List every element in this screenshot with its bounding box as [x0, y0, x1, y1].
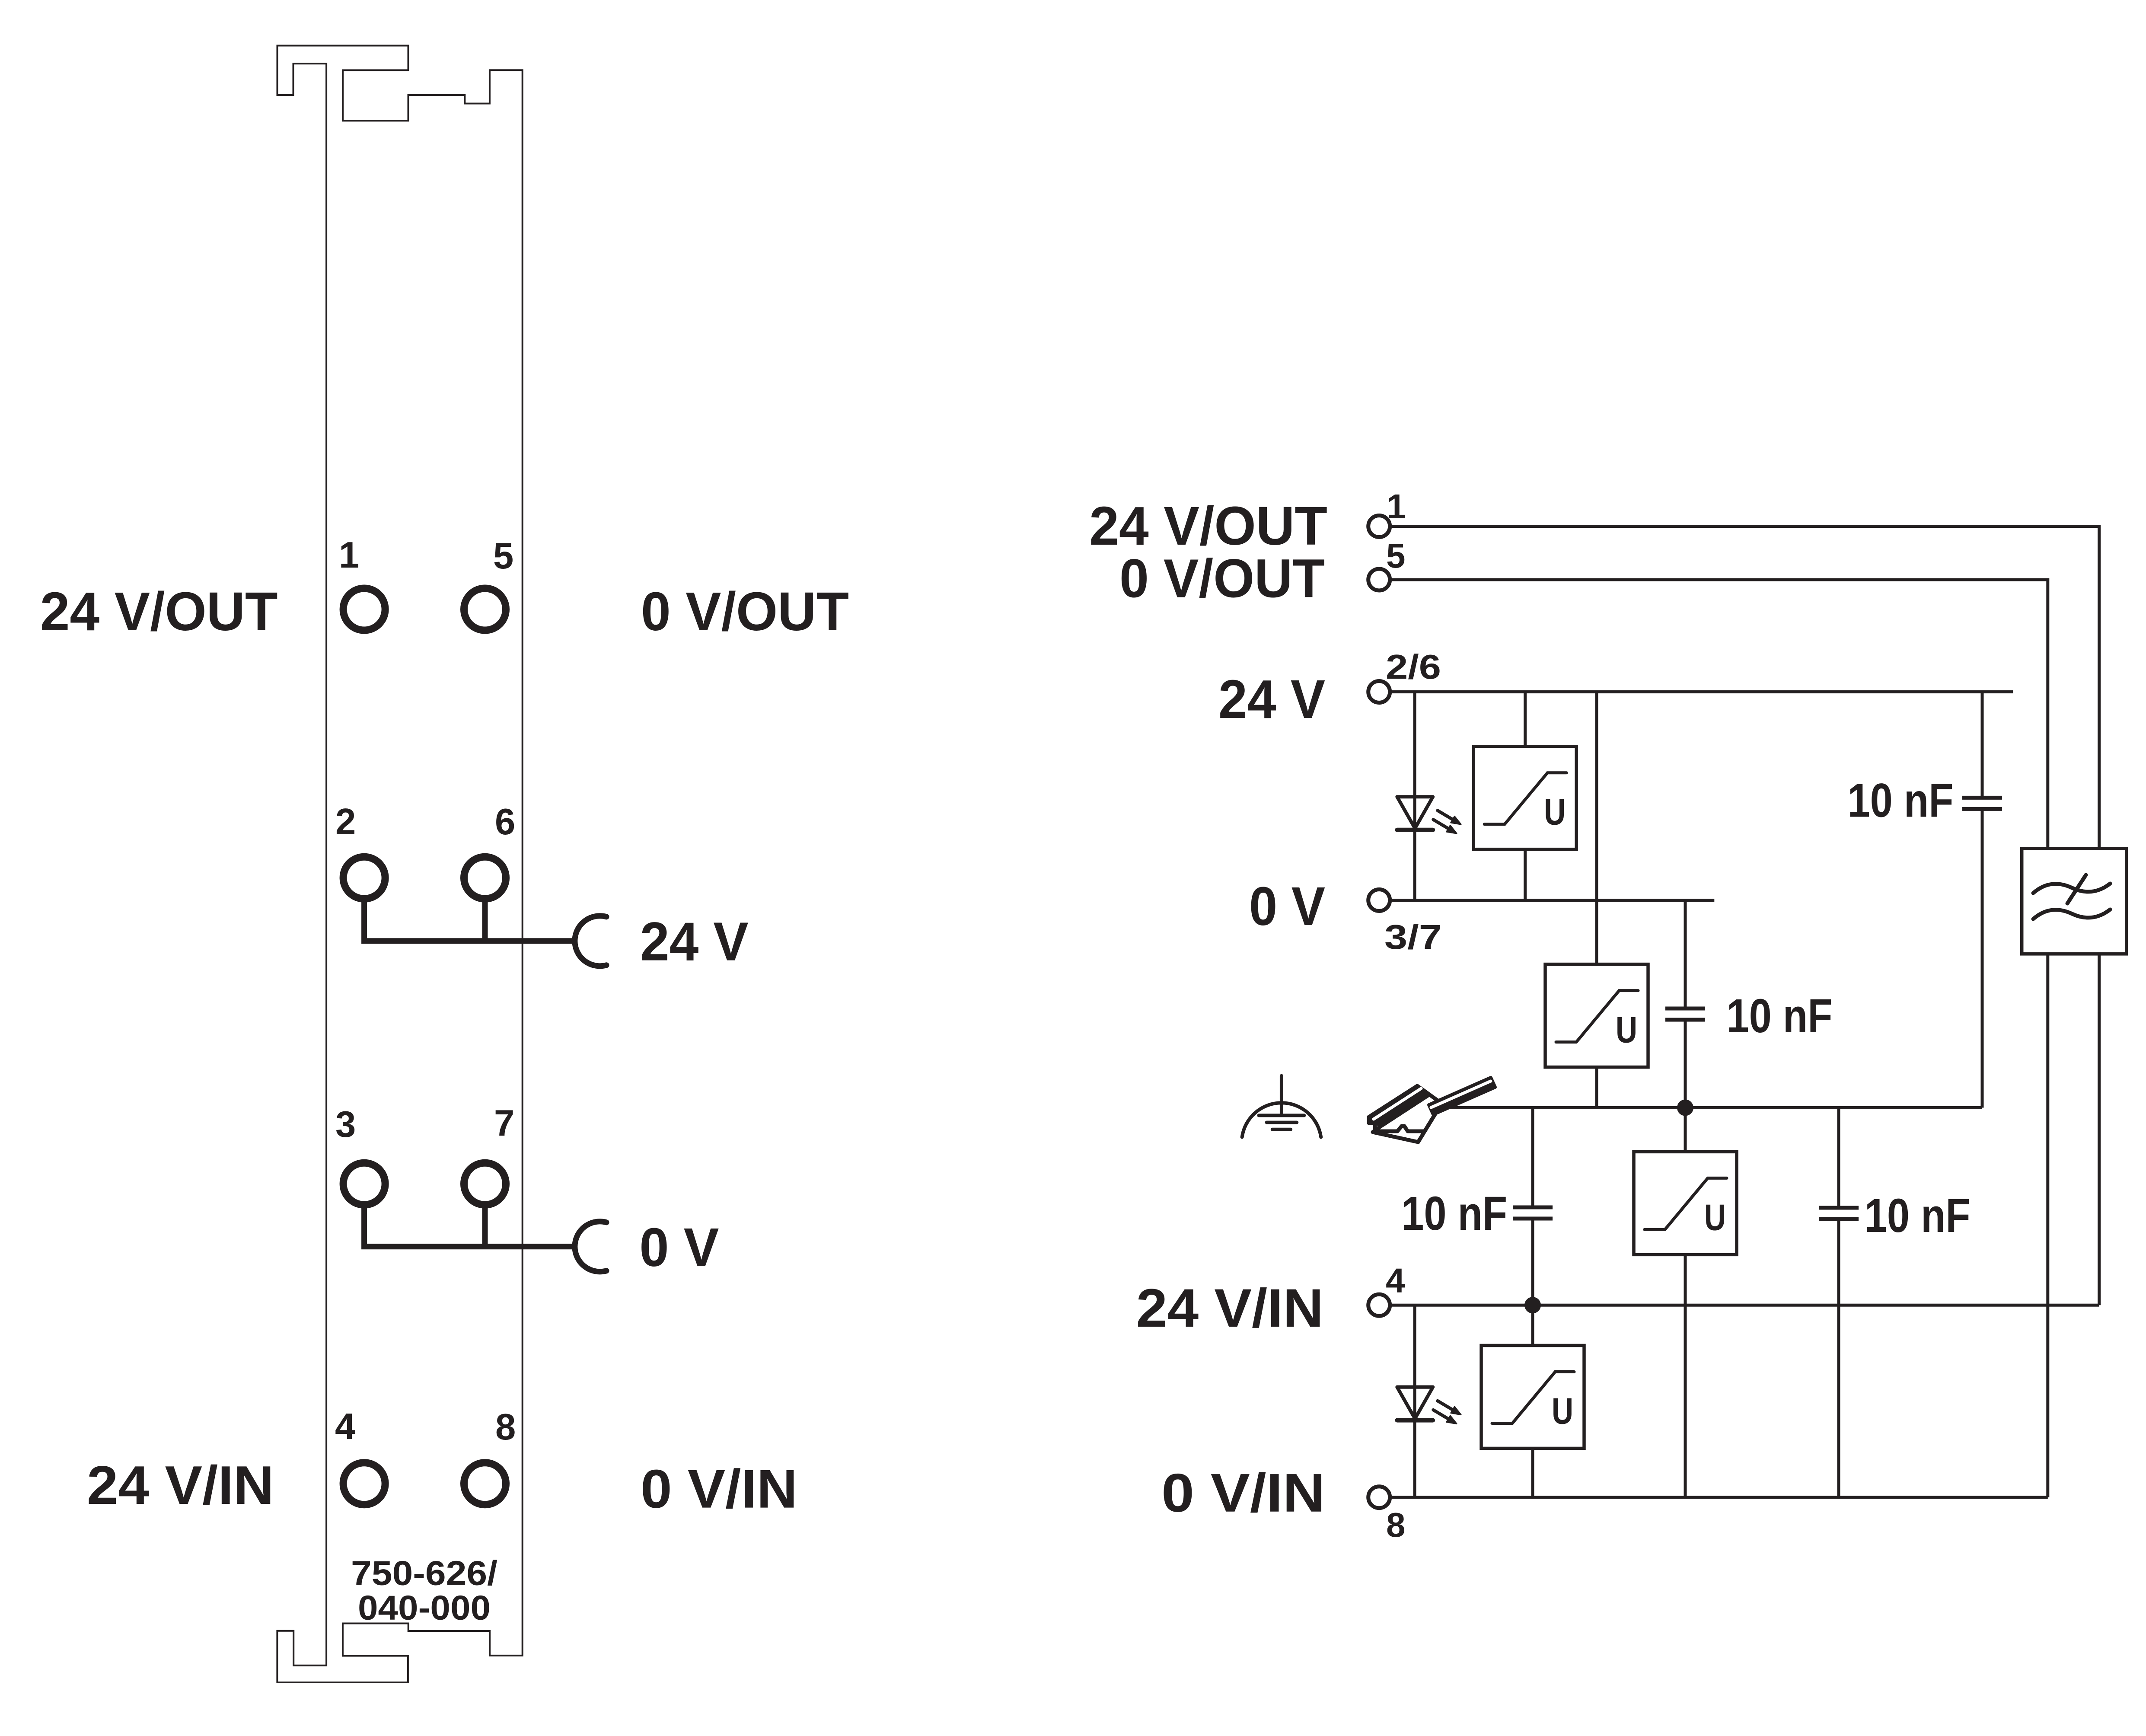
- terminal circle 6: [464, 857, 506, 899]
- svg-text:4: 4: [335, 1406, 355, 1447]
- DIN rail symbol: [1369, 1078, 1495, 1142]
- LED2 light arrow b: [1433, 1410, 1449, 1420]
- power jumper contact arc 0V: [575, 1222, 606, 1272]
- svg-text:U: U: [1704, 1197, 1726, 1238]
- terminal 5 circle: [1368, 569, 1390, 590]
- wire 0V/IN rail: [1392, 1496, 2048, 1499]
- wire U2 column: [1595, 692, 1598, 1108]
- wire 24V rail: [1392, 690, 2013, 693]
- svg-text:24 V: 24 V: [1218, 669, 1325, 730]
- LED1 triangle: [1397, 797, 1433, 828]
- junction dot 24V-IN/U4: [1524, 1297, 1541, 1313]
- terminal circle 3: [343, 1163, 385, 1205]
- svg-text:0 V: 0 V: [1249, 876, 1325, 937]
- svg-text:040-000: 040-000: [358, 1588, 491, 1627]
- wire 0V/OUT rail: [1392, 580, 2048, 849]
- wire 0V rail: [1392, 899, 1714, 902]
- terminal circle 2: [343, 857, 385, 899]
- filter slash: [2067, 875, 2086, 903]
- suppressor U1: [1473, 747, 1576, 849]
- power jumper contact arc 24V: [575, 916, 606, 966]
- wire filter output left (to 0V/IN): [2046, 954, 2049, 1497]
- svg-text:24 V/OUT: 24 V/OUT: [40, 581, 278, 642]
- svg-text:24 V/IN: 24 V/IN: [87, 1455, 274, 1516]
- svg-text:0 V: 0 V: [639, 1217, 719, 1278]
- svg-text:24 V/IN: 24 V/IN: [1136, 1277, 1324, 1338]
- wire C1 column (24V to ground): [1981, 692, 1984, 1108]
- filter wave bottom: [2033, 909, 2110, 919]
- svg-text:10 nF: 10 nF: [1401, 1187, 1507, 1240]
- wire C4 column (ground to 24V/IN): [1531, 1108, 1534, 1305]
- capacitor C2 10nF: [1665, 1008, 1705, 1020]
- svg-text:U: U: [1552, 1391, 1573, 1432]
- svg-text:1: 1: [1387, 487, 1406, 526]
- capacitor C5 10nF: [1819, 1208, 1859, 1219]
- svg-text:0 V/OUT: 0 V/OUT: [641, 581, 849, 642]
- svg-text:3: 3: [335, 1104, 356, 1145]
- terminal circle 7: [464, 1163, 506, 1205]
- wire stem terminal 6: [482, 900, 488, 941]
- svg-text:4: 4: [1386, 1261, 1405, 1300]
- svg-text:5: 5: [1386, 536, 1406, 575]
- terminal circle 8: [464, 1463, 506, 1505]
- terminal 8 circle: [1368, 1487, 1390, 1508]
- filter box: [2022, 849, 2127, 954]
- svg-text:1: 1: [339, 535, 359, 576]
- svg-text:0 V/IN: 0 V/IN: [641, 1458, 797, 1519]
- svg-text:7: 7: [494, 1103, 514, 1144]
- svg-text:2/6: 2/6: [1386, 648, 1441, 686]
- svg-text:750-626/: 750-626/: [351, 1554, 497, 1592]
- svg-text:10 nF: 10 nF: [1727, 989, 1833, 1043]
- LED2 light arrow a: [1438, 1401, 1454, 1410]
- wire C5 column (ground to 0V/IN): [1837, 1108, 1840, 1497]
- wire 24V/IN rail: [1392, 1304, 2099, 1307]
- svg-text:24 V/OUT: 24 V/OUT: [1089, 495, 1327, 556]
- wire bracket terminals 2+6 to 24V tap: [364, 900, 576, 941]
- LED1 light arrow a: [1438, 811, 1454, 820]
- wire LED1 branch: [1413, 692, 1416, 900]
- wire bracket terminals 3+7 to 0V tap: [364, 1206, 576, 1247]
- svg-text:24 V: 24 V: [640, 911, 749, 972]
- wire ground rail: [1444, 1106, 1982, 1109]
- svg-text:8: 8: [495, 1407, 516, 1448]
- svg-text:10 nF: 10 nF: [1865, 1189, 1971, 1242]
- ground symbol PE: [1242, 1076, 1321, 1137]
- suppressor U3: [1634, 1152, 1737, 1254]
- LED2 cathode bar: [1397, 1418, 1433, 1423]
- terminal 4 circle: [1368, 1294, 1390, 1316]
- wire U1 stubs: [1524, 692, 1527, 900]
- svg-text:U: U: [1544, 792, 1566, 833]
- wire 24V/OUT rail: [1392, 527, 2099, 849]
- wire U4 column: [1531, 1305, 1534, 1497]
- LED1 cathode bar: [1397, 828, 1433, 832]
- wire C2 column (0V to ground): [1684, 900, 1687, 1108]
- svg-text:8: 8: [1386, 1506, 1406, 1544]
- svg-text:3/7: 3/7: [1384, 918, 1442, 956]
- terminal 1 circle: [1368, 516, 1390, 537]
- capacitor C4 10nF: [1513, 1207, 1553, 1219]
- svg-text:0 V/OUT: 0 V/OUT: [1119, 548, 1325, 609]
- svg-text:10 nF: 10 nF: [1848, 774, 1954, 827]
- LED2 triangle: [1397, 1387, 1433, 1419]
- filter wave top: [2033, 884, 2110, 893]
- terminal circle 4: [343, 1463, 385, 1505]
- capacitor C1 10nF: [1962, 798, 2002, 809]
- svg-text:0 V/IN: 0 V/IN: [1161, 1462, 1325, 1523]
- terminal circle 1: [343, 588, 385, 630]
- junction dot ground/C2: [1677, 1100, 1693, 1116]
- terminal circle 5: [464, 588, 506, 630]
- wire filter output right (to 24V/IN): [2098, 954, 2101, 1305]
- svg-text:2: 2: [335, 801, 356, 842]
- LED1 light arrow b: [1433, 820, 1449, 829]
- wire U3 column: [1684, 1108, 1687, 1497]
- terminal 2/6 circle: [1368, 681, 1390, 703]
- wire stem terminal 7: [482, 1206, 488, 1247]
- suppressor U4: [1481, 1346, 1584, 1449]
- wire LED2 branch: [1413, 1305, 1416, 1497]
- svg-text:6: 6: [495, 801, 515, 842]
- suppressor U2: [1545, 964, 1648, 1067]
- svg-text:5: 5: [493, 536, 513, 577]
- module outline 750-626: [277, 46, 522, 1683]
- svg-text:U: U: [1616, 1010, 1637, 1051]
- terminal 3/7 circle: [1368, 890, 1390, 911]
